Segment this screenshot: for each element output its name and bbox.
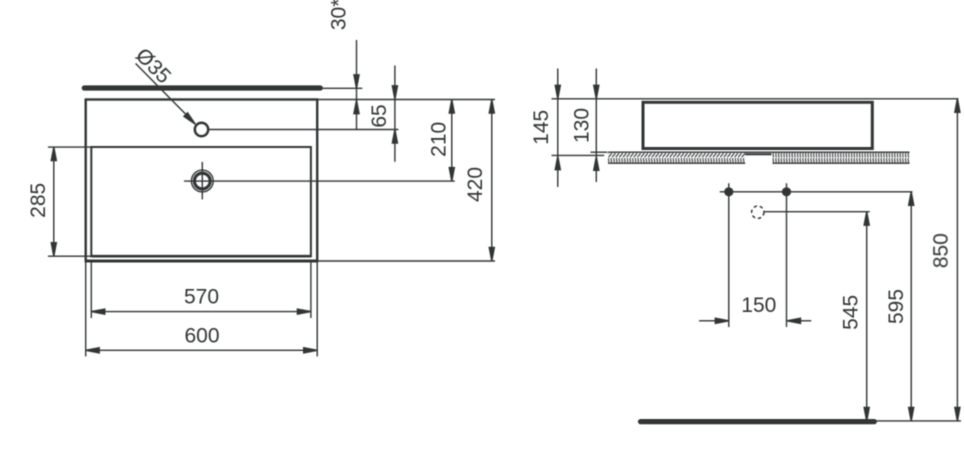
svg-text:850: 850 xyxy=(930,233,953,268)
svg-text:570: 570 xyxy=(184,286,219,309)
svg-text:210: 210 xyxy=(427,122,450,157)
svg-text:30*: 30* xyxy=(328,0,351,30)
svg-text:285: 285 xyxy=(27,183,50,218)
svg-text:65: 65 xyxy=(368,104,391,127)
svg-text:420: 420 xyxy=(464,167,487,202)
svg-text:595: 595 xyxy=(885,289,908,324)
svg-text:150: 150 xyxy=(741,294,776,317)
svg-text:Ø35: Ø35 xyxy=(131,44,175,88)
svg-text:130: 130 xyxy=(570,108,593,143)
svg-text:545: 545 xyxy=(840,295,863,330)
svg-text:600: 600 xyxy=(184,324,219,347)
svg-text:145: 145 xyxy=(530,110,553,145)
